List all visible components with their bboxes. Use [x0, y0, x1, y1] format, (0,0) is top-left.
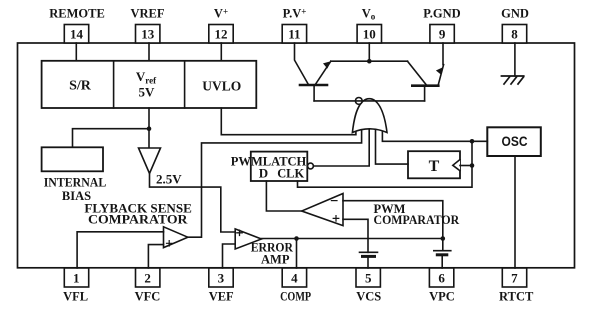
svg-text:RTCT: RTCT	[499, 290, 534, 304]
svg-text:VEF: VEF	[209, 290, 234, 304]
block INTERNAL BIAS	[42, 147, 107, 203]
svg-text:10: 10	[363, 27, 376, 42]
svg-text:INTERNAL: INTERNAL	[44, 176, 107, 190]
svg-text:14: 14	[70, 27, 84, 42]
comparator flyback sense	[84, 202, 191, 248]
wire latch output to NOR input	[313, 128, 369, 167]
wire latch CLK from OSC	[298, 141, 473, 187]
node Vref junction	[147, 126, 152, 131]
node error amp to - input junction	[441, 236, 446, 241]
wire error amp output	[261, 238, 442, 240]
comparator PWM	[302, 194, 460, 227]
svg-text:T: T	[429, 158, 440, 175]
flip-flop T	[408, 151, 460, 178]
wire UVLO output to NOR input	[221, 108, 356, 135]
svg-text:UVLO: UVLO	[202, 79, 241, 94]
svg-text:5V: 5V	[139, 85, 156, 100]
node CLK-T junction	[470, 163, 475, 168]
svg-text:VFL: VFL	[63, 290, 88, 304]
node CLK-OSC junction	[470, 139, 475, 144]
op-amp error amp	[235, 229, 294, 267]
wire pin14 to S/R	[75, 43, 77, 61]
wire pin1 to flyback - input	[77, 232, 163, 268]
svg-text:COMP: COMP	[280, 290, 311, 304]
block OSC	[487, 127, 541, 156]
wire T clock from junction	[460, 165, 472, 167]
svg-text:6: 6	[438, 271, 445, 286]
svg-text:12: 12	[215, 27, 228, 42]
svg-text:1: 1	[73, 271, 80, 286]
svg-text:4: 4	[291, 271, 298, 286]
pin 5 VCS	[356, 268, 381, 304]
wire pin13 to Vref	[148, 43, 150, 61]
wire COMP junction to pin4	[296, 239, 298, 269]
pin 14 REMOTE	[49, 7, 105, 43]
pin 10 Vo	[357, 7, 381, 43]
pin 11 P.V+	[282, 7, 306, 43]
transistor Q2 output lower	[408, 61, 444, 101]
svg-text:9: 9	[439, 27, 446, 42]
svg-text:COMPARATOR: COMPARATOR	[374, 213, 461, 227]
wire PWM - input to pin6	[343, 201, 443, 251]
pin 1 VFL	[63, 268, 89, 304]
node latch Q bubble	[308, 163, 314, 169]
wire flyback output to NOR input	[188, 130, 362, 237]
svg-text:8: 8	[511, 27, 518, 42]
svg-text:2: 2	[144, 271, 151, 286]
wire pin2 to flyback + input	[148, 245, 163, 268]
pin 6 VPC	[429, 268, 455, 304]
node COMP junction	[294, 236, 299, 241]
pin 4 COMP	[280, 268, 311, 304]
wire emitter rail to pin10	[331, 60, 408, 62]
buffer 2.5V triangle	[139, 148, 183, 187]
svg-text:VPC: VPC	[429, 290, 455, 304]
pin 7 RTCT	[499, 268, 534, 304]
wire OSC output to NOR input	[382, 131, 487, 142]
node Vo junction	[367, 59, 372, 64]
svg-text:VFC: VFC	[135, 290, 161, 304]
pin 2 VFC	[135, 268, 161, 304]
svg-text:2.5V: 2.5V	[156, 172, 182, 187]
pin 13 VREF	[130, 7, 164, 43]
svg-text:CLK: CLK	[277, 166, 305, 181]
pin 9 P.GND	[423, 7, 460, 43]
svg-text:AMP: AMP	[261, 253, 290, 267]
svg-text:REMOTE: REMOTE	[49, 7, 105, 21]
svg-text:S/R: S/R	[69, 79, 92, 94]
wire pin8 to ground	[514, 43, 516, 76]
wire transistor drive line	[314, 100, 425, 102]
pin 8 GND	[501, 7, 529, 43]
svg-text:13: 13	[141, 27, 155, 42]
wire PWM output to latch D	[266, 181, 301, 211]
battery offset VPC	[434, 251, 451, 268]
pin 3 VEF	[209, 268, 234, 304]
block PWM latch	[231, 152, 307, 181]
wire Vref output down	[148, 108, 150, 148]
svg-text:GND: GND	[501, 7, 529, 21]
ground	[502, 76, 524, 84]
svg-text:OSC: OSC	[502, 134, 528, 149]
wire pin3 to error amp - input	[223, 244, 236, 268]
svg-text:VREF: VREF	[130, 7, 164, 21]
wire OSC to pin7 RTCT	[514, 156, 516, 268]
pin 12 V+	[209, 7, 233, 43]
svg-text:COMPARATOR: COMPARATOR	[88, 213, 189, 227]
wire junction to internal bias	[73, 129, 150, 148]
wire pin12 to UVLO	[220, 43, 222, 61]
svg-text:P.GND: P.GND	[423, 7, 460, 21]
svg-text:D: D	[259, 166, 268, 181]
IC outline box	[18, 43, 575, 268]
transistor Q1 output upper	[295, 43, 331, 101]
gate NOR	[352, 98, 387, 133]
svg-text:3: 3	[218, 271, 225, 286]
wire PWM + input to pin5	[343, 219, 368, 252]
svg-text:11: 11	[288, 27, 300, 42]
svg-text:5: 5	[365, 271, 372, 286]
wire T output to NOR input	[376, 128, 409, 164]
battery offset VCS	[360, 252, 378, 268]
wire pin10 down	[368, 43, 370, 61]
svg-text:7: 7	[511, 271, 518, 286]
wire 2.5V to error amp + input	[150, 174, 236, 233]
wire pin9 down to emitter	[442, 43, 444, 65]
svg-text:VCS: VCS	[356, 290, 381, 304]
block S/R + Vref 5V + UVLO	[42, 61, 257, 108]
